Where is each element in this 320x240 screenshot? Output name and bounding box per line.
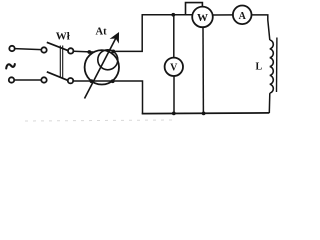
autotransformer At small winding circle	[98, 50, 118, 70]
wire voltmeter branch upper	[173, 15, 175, 58]
autotransformer At wiper arrow	[85, 35, 118, 99]
node At bottom-right	[111, 79, 115, 83]
wire wattmeter branch lower	[202, 27, 204, 113]
svg-text:V: V	[170, 63, 178, 74]
wire source bottom	[14, 79, 41, 81]
inductor L core line	[276, 38, 278, 93]
node bottom rail voltmeter	[172, 112, 176, 116]
AC source symbol ~	[6, 64, 15, 68]
wire voltmeter branch lower	[173, 76, 175, 114]
wire bottom: switch to left vertical	[73, 81, 142, 114]
switch contact left top	[41, 47, 46, 52]
wire coil bottom to rail	[268, 93, 271, 113]
svg-text:A: A	[239, 11, 247, 22]
svg-text:W: W	[197, 12, 208, 24]
autotransformer At main winding circle	[85, 50, 119, 84]
switch contact right bottom	[68, 78, 73, 83]
switch coupling bar	[60, 46, 62, 79]
switch blade bottom	[47, 72, 68, 81]
voltmeter V	[165, 58, 183, 76]
node At bottom-left	[90, 79, 94, 83]
wire bottom rail	[142, 112, 270, 115]
svg-text:At: At	[96, 27, 108, 38]
wire source top	[15, 49, 41, 50]
switch contact left bottom	[41, 77, 46, 82]
terminal bottom	[9, 77, 14, 82]
wire top rail left segment	[142, 14, 193, 16]
node At wiper output	[111, 50, 115, 54]
svg-text:Wł: Wł	[56, 31, 70, 43]
switch contact right top	[68, 48, 73, 53]
svg-text:L: L	[256, 62, 263, 73]
switch blade top	[47, 42, 68, 50]
node bottom rail wattmeter	[202, 112, 206, 116]
wire A to right corner and down to coil	[252, 15, 270, 40]
ammeter A	[233, 6, 252, 25]
node At top-left	[87, 50, 91, 54]
node top rail voltmeter tap	[171, 13, 175, 17]
wire At output to top rail	[113, 15, 142, 52]
wire top rail W to A	[213, 14, 233, 16]
inductor L coil	[270, 40, 274, 93]
terminal top	[9, 46, 14, 51]
wattmeter voltage-coil bracket	[186, 3, 203, 15]
wattmeter W	[192, 7, 213, 28]
wire switch to At top	[74, 50, 94, 53]
